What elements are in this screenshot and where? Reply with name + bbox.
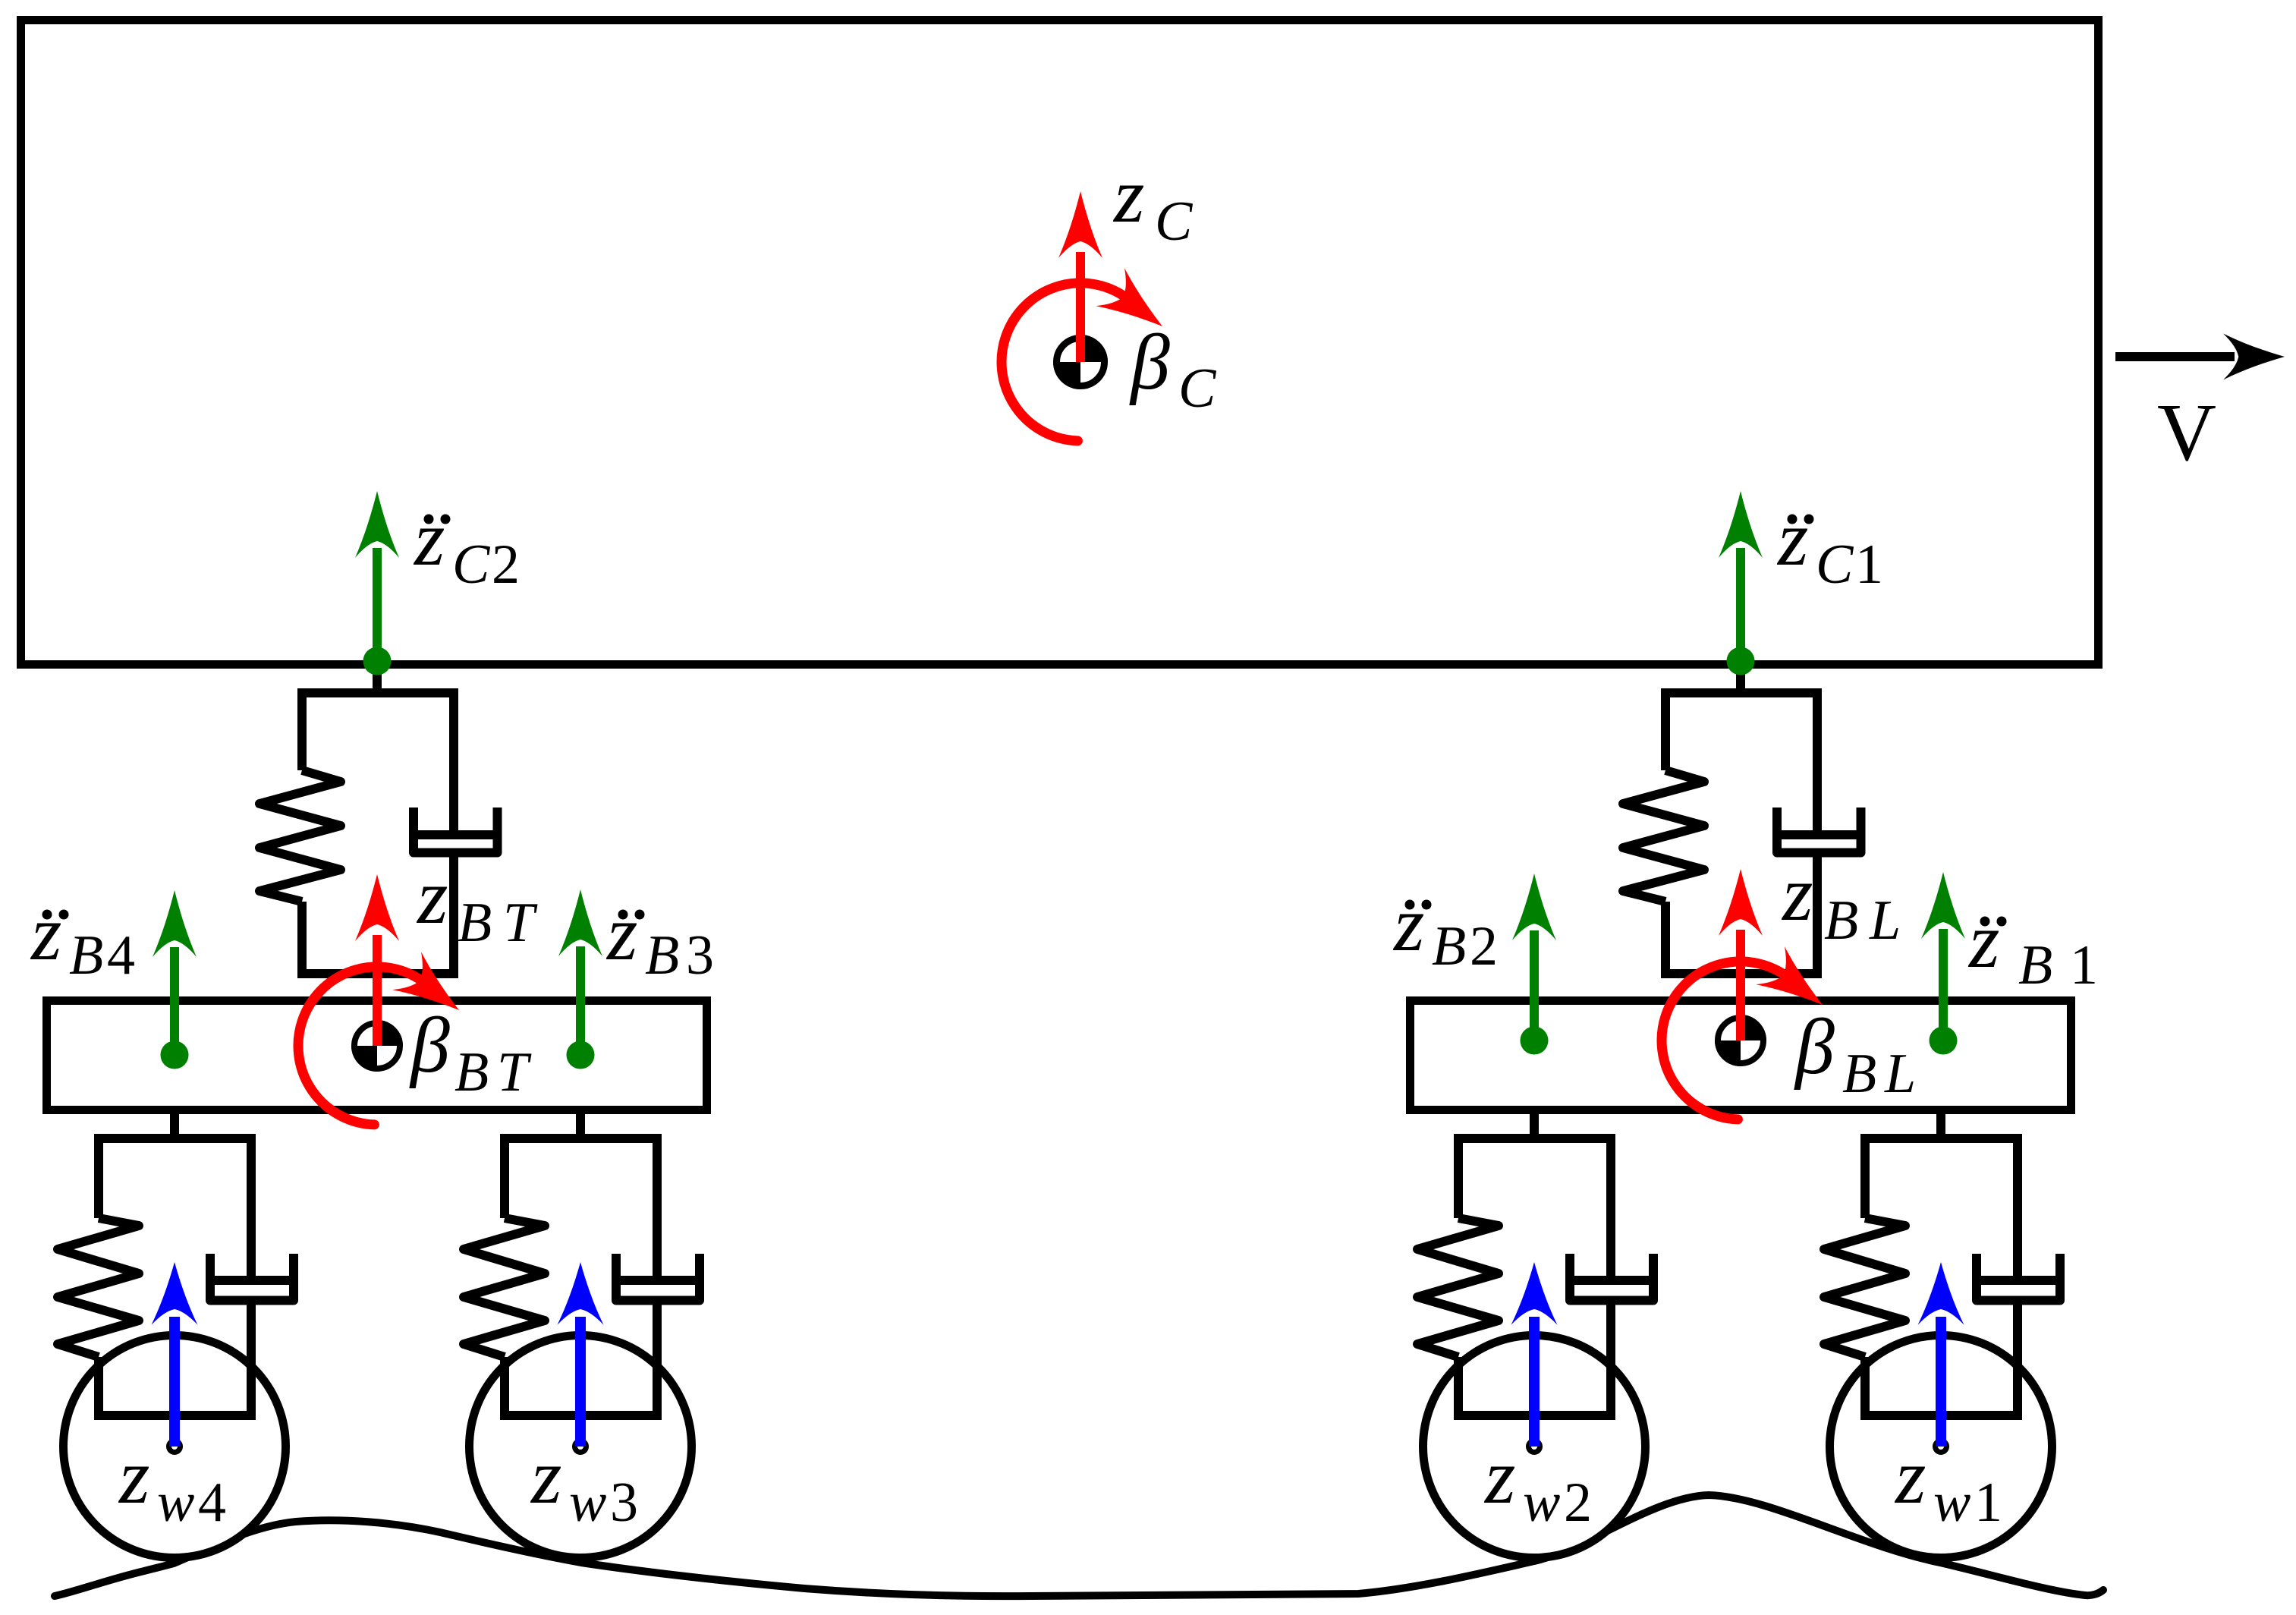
svg-text:2: 2 — [492, 534, 520, 596]
svg-text:C: C — [452, 534, 491, 596]
svg-text:V: V — [2157, 388, 2216, 478]
svg-text:L: L — [1869, 889, 1901, 952]
svg-text:w: w — [157, 1472, 194, 1534]
svg-text:T: T — [503, 892, 538, 954]
svg-text:w: w — [569, 1472, 606, 1534]
svg-text:1: 1 — [2070, 934, 2098, 996]
svg-text:3: 3 — [686, 924, 714, 987]
svg-text:B: B — [2018, 934, 2052, 996]
svg-text:T: T — [497, 1041, 532, 1103]
svg-text:z: z — [30, 889, 61, 977]
svg-text:z: z — [530, 1433, 561, 1520]
svg-text:B: B — [1824, 889, 1858, 952]
svg-text:1: 1 — [1974, 1472, 2002, 1534]
svg-text:β: β — [1129, 319, 1170, 406]
svg-text:z: z — [413, 495, 445, 582]
svg-text:z: z — [1967, 897, 1999, 984]
svg-text:w: w — [1933, 1472, 1970, 1534]
svg-text:B: B — [1432, 915, 1466, 977]
svg-text:4: 4 — [107, 924, 135, 987]
svg-text:z: z — [605, 889, 637, 977]
svg-text:z: z — [1112, 152, 1144, 239]
svg-text:L: L — [1884, 1043, 1916, 1105]
svg-text:β: β — [1794, 1003, 1835, 1091]
svg-text:C: C — [1155, 190, 1194, 253]
svg-text:C: C — [1178, 357, 1217, 420]
svg-text:2: 2 — [1470, 915, 1498, 977]
svg-text:z: z — [1483, 1433, 1515, 1520]
svg-text:4: 4 — [198, 1472, 226, 1534]
svg-text:β: β — [409, 1002, 450, 1089]
svg-text:z: z — [118, 1433, 149, 1520]
svg-text:C: C — [1816, 534, 1854, 596]
svg-text:z: z — [416, 853, 448, 940]
svg-text:3: 3 — [610, 1472, 638, 1534]
svg-text:1: 1 — [1855, 534, 1883, 596]
svg-text:z: z — [1781, 850, 1813, 937]
svg-text:z: z — [1894, 1433, 1926, 1520]
svg-text:z: z — [1776, 495, 1808, 582]
svg-text:B: B — [454, 1041, 489, 1103]
svg-text:z: z — [1392, 880, 1424, 968]
svg-text:w: w — [1523, 1472, 1560, 1534]
svg-text:B: B — [69, 924, 103, 987]
svg-text:2: 2 — [1564, 1472, 1592, 1534]
svg-text:B: B — [458, 892, 492, 954]
svg-text:B: B — [1842, 1043, 1876, 1105]
svg-text:B: B — [645, 924, 679, 987]
